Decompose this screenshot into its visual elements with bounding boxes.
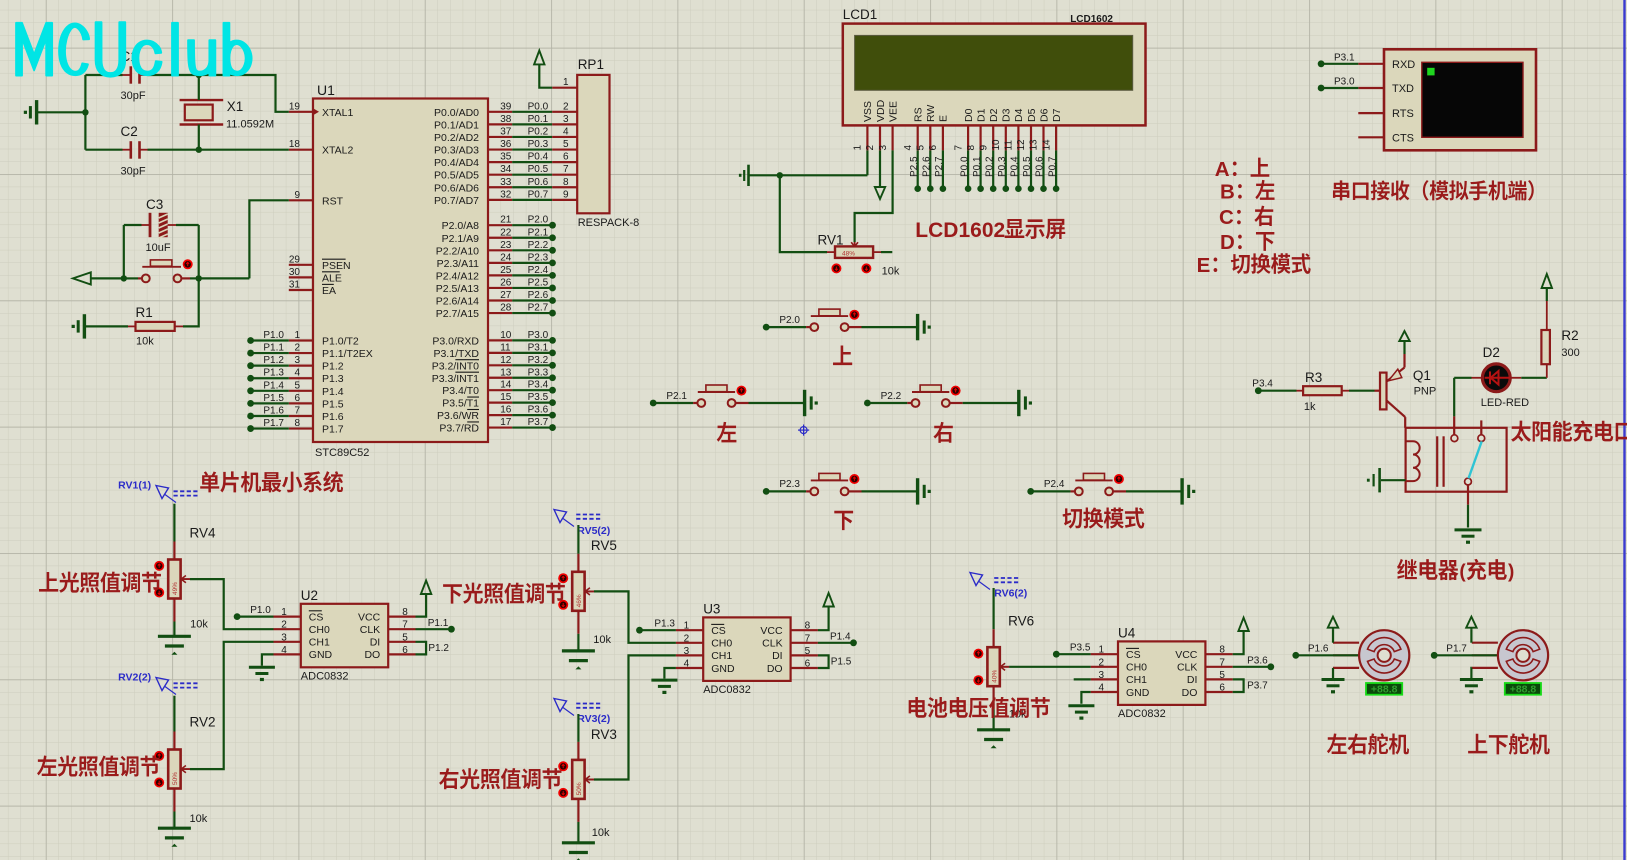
svg-text:8: 8 <box>294 418 300 429</box>
svg-text:P2.2: P2.2 <box>528 240 549 251</box>
svg-text:D7: D7 <box>1051 108 1063 122</box>
svg-text:30: 30 <box>289 267 301 278</box>
svg-text:9: 9 <box>294 190 300 201</box>
svg-text:P2.5/A13: P2.5/A13 <box>436 283 479 295</box>
svg-text:RV6(2): RV6(2) <box>994 587 1027 599</box>
svg-text:P3.4/T0: P3.4/T0 <box>442 385 479 397</box>
svg-text:12: 12 <box>1016 139 1027 151</box>
svg-text:48%: 48% <box>842 251 855 258</box>
svg-text:7: 7 <box>402 620 408 631</box>
svg-text:P3.7: P3.7 <box>1247 681 1268 692</box>
svg-text:11: 11 <box>500 342 511 353</box>
svg-text:P1.4: P1.4 <box>322 386 344 398</box>
svg-text:P3.3/INT1: P3.3/INT1 <box>432 373 479 385</box>
svg-text:LCD1602: LCD1602 <box>915 219 1005 242</box>
svg-text:(: ( <box>1459 561 1466 582</box>
svg-text:P0.2: P0.2 <box>984 156 995 177</box>
svg-text:P0.0: P0.0 <box>959 156 970 177</box>
svg-text:P3.7/RD: P3.7/RD <box>439 423 479 435</box>
svg-text:33: 33 <box>500 177 512 188</box>
svg-text:EA: EA <box>322 285 336 297</box>
svg-text:D6: D6 <box>1038 108 1050 122</box>
svg-text:P1.5: P1.5 <box>831 657 852 668</box>
svg-text:2: 2 <box>684 633 690 644</box>
svg-text:P3.6/WR: P3.6/WR <box>437 410 479 422</box>
svg-text:D: D <box>1220 231 1235 254</box>
svg-text:10: 10 <box>991 139 1002 151</box>
svg-text:8: 8 <box>1219 645 1225 656</box>
svg-text:P2.2/A10: P2.2/A10 <box>436 245 479 257</box>
svg-text:3: 3 <box>1098 670 1104 681</box>
svg-text:3: 3 <box>281 632 287 643</box>
svg-text:P2.3/A11: P2.3/A11 <box>437 258 480 270</box>
svg-text:26: 26 <box>500 277 512 288</box>
svg-text:VEE: VEE <box>887 101 899 122</box>
svg-text:R3: R3 <box>1305 370 1322 385</box>
svg-text:P1.4: P1.4 <box>830 632 851 643</box>
svg-text:CLK: CLK <box>1177 662 1197 674</box>
svg-text:XTAL2: XTAL2 <box>322 145 353 157</box>
svg-text:7: 7 <box>1219 657 1225 668</box>
svg-text:DO: DO <box>1182 687 1198 699</box>
svg-text:P0.6: P0.6 <box>528 177 549 188</box>
svg-text:P0.3/AD3: P0.3/AD3 <box>434 145 479 157</box>
svg-text:RV2: RV2 <box>190 715 216 730</box>
svg-text:P2.1: P2.1 <box>528 227 549 238</box>
svg-text:3: 3 <box>684 646 690 657</box>
svg-text:B: B <box>1220 181 1235 204</box>
svg-text:CLK: CLK <box>360 624 380 636</box>
svg-text:35: 35 <box>500 152 512 163</box>
svg-text:DI: DI <box>772 650 783 662</box>
svg-text:9: 9 <box>563 189 569 200</box>
svg-text:D1: D1 <box>975 108 987 122</box>
svg-text:P1.1/T2EX: P1.1/T2EX <box>322 348 373 360</box>
svg-text:P3.5/T1: P3.5/T1 <box>442 398 479 410</box>
svg-text:P0.1: P0.1 <box>972 156 983 177</box>
svg-text:CH1: CH1 <box>711 650 732 662</box>
svg-text:CH1: CH1 <box>1126 674 1147 686</box>
svg-text:46%: 46% <box>576 594 583 607</box>
svg-text:CH0: CH0 <box>309 624 330 636</box>
svg-text:P2.7: P2.7 <box>528 303 549 314</box>
svg-text:11.0592M: 11.0592M <box>226 118 274 130</box>
svg-text:1: 1 <box>684 621 690 632</box>
svg-text:P2.6/A14: P2.6/A14 <box>436 296 479 308</box>
svg-text:RV3(2): RV3(2) <box>577 713 610 725</box>
svg-text:A: A <box>1215 158 1230 181</box>
svg-text:P0.5: P0.5 <box>1022 156 1033 177</box>
svg-text:P2.0: P2.0 <box>528 215 549 226</box>
svg-text:29: 29 <box>289 254 301 265</box>
svg-text:10k: 10k <box>592 827 610 839</box>
svg-text:P2.5: P2.5 <box>528 277 549 288</box>
svg-text:32: 32 <box>500 189 512 200</box>
svg-text:D2: D2 <box>1483 345 1500 360</box>
svg-text:P1.7: P1.7 <box>322 424 344 436</box>
svg-text:D0: D0 <box>963 108 975 122</box>
svg-text:2: 2 <box>294 343 300 354</box>
svg-text:RV4: RV4 <box>190 526 217 541</box>
svg-text:P1.7: P1.7 <box>263 418 284 429</box>
svg-text:LED-RED: LED-RED <box>1481 397 1529 409</box>
svg-text:ADC0832: ADC0832 <box>1118 708 1166 720</box>
svg-text:GND: GND <box>1126 687 1150 699</box>
svg-text:P0.2/AD2: P0.2/AD2 <box>434 132 479 144</box>
svg-text:P1.0: P1.0 <box>263 330 284 341</box>
svg-text:P2.2: P2.2 <box>881 391 902 402</box>
svg-text:5: 5 <box>1219 670 1225 681</box>
svg-text:P1.3: P1.3 <box>654 619 675 630</box>
svg-text:DO: DO <box>364 649 380 661</box>
svg-text:D4: D4 <box>1013 108 1025 122</box>
svg-text:1: 1 <box>281 607 287 618</box>
svg-text:5: 5 <box>563 139 569 150</box>
svg-text:38: 38 <box>500 114 512 125</box>
svg-text:P1.6: P1.6 <box>1308 644 1329 655</box>
svg-text:D3: D3 <box>1001 108 1013 122</box>
svg-text:1: 1 <box>853 145 864 151</box>
svg-text:P3.1/TXD: P3.1/TXD <box>433 348 479 360</box>
svg-text:P3.0: P3.0 <box>1334 77 1355 88</box>
svg-text:P0.0: P0.0 <box>528 101 549 112</box>
svg-text:U2: U2 <box>301 588 318 603</box>
svg-text:4: 4 <box>563 126 569 137</box>
svg-text:P3.1: P3.1 <box>1334 52 1355 63</box>
svg-text:P0.1: P0.1 <box>528 114 549 125</box>
svg-text:24: 24 <box>500 252 512 263</box>
svg-text:10k: 10k <box>136 336 154 348</box>
svg-text:8: 8 <box>805 621 811 632</box>
svg-text:1k: 1k <box>1304 401 1316 413</box>
svg-text:RTS: RTS <box>1392 108 1414 120</box>
svg-text:40%: 40% <box>991 669 998 682</box>
svg-text:P1.2: P1.2 <box>322 361 344 373</box>
svg-text:14: 14 <box>1041 139 1052 151</box>
svg-text:P0.0/AD0: P0.0/AD0 <box>434 107 479 119</box>
svg-text:5: 5 <box>402 632 408 643</box>
svg-text:300: 300 <box>1561 347 1579 359</box>
svg-text:10k: 10k <box>190 813 208 825</box>
svg-text:P0.6/AD6: P0.6/AD6 <box>434 182 479 194</box>
svg-text:5: 5 <box>294 380 300 391</box>
svg-text:P1.6: P1.6 <box>322 411 344 423</box>
svg-text:P0.7: P0.7 <box>1047 156 1058 177</box>
svg-text:DI: DI <box>1187 674 1198 686</box>
svg-text:10: 10 <box>500 330 512 341</box>
svg-text:C2: C2 <box>121 124 138 139</box>
svg-text:1: 1 <box>294 330 300 341</box>
svg-text:PNP: PNP <box>1414 386 1437 398</box>
svg-text:VCC: VCC <box>1175 649 1198 661</box>
svg-text:GND: GND <box>309 649 333 661</box>
svg-text:STC89C52: STC89C52 <box>315 447 369 459</box>
svg-text:P3.1: P3.1 <box>528 342 549 353</box>
svg-text:2: 2 <box>281 620 287 631</box>
svg-text:P3.2: P3.2 <box>528 355 549 366</box>
svg-text:P2.4: P2.4 <box>1044 479 1065 490</box>
svg-text:RV1(1): RV1(1) <box>118 479 151 491</box>
svg-text:P2.3: P2.3 <box>528 252 549 263</box>
svg-text:Q1: Q1 <box>1413 368 1431 383</box>
svg-text:28: 28 <box>500 303 512 314</box>
svg-text:6: 6 <box>928 145 939 151</box>
svg-text:P1.1: P1.1 <box>428 618 449 629</box>
svg-text:10k: 10k <box>190 619 208 631</box>
svg-text:R1: R1 <box>136 305 153 320</box>
svg-text:13: 13 <box>1029 139 1040 151</box>
svg-text:39: 39 <box>500 101 512 112</box>
svg-text:P1.5: P1.5 <box>263 393 284 404</box>
svg-text:34: 34 <box>500 164 512 175</box>
svg-text:49%: 49% <box>172 582 179 595</box>
svg-text:ADC0832: ADC0832 <box>703 684 751 696</box>
svg-text:R2: R2 <box>1561 328 1578 343</box>
svg-text:P1.3: P1.3 <box>322 373 344 385</box>
svg-text:+88.8: +88.8 <box>1510 684 1537 696</box>
svg-text:P1.0/T2: P1.0/T2 <box>322 336 359 348</box>
svg-text:P1.5: P1.5 <box>322 398 344 410</box>
svg-text:): ) <box>1508 561 1514 582</box>
svg-text:CS: CS <box>309 611 324 623</box>
svg-text:P2.6: P2.6 <box>528 290 549 301</box>
svg-text:2: 2 <box>563 101 569 112</box>
svg-text:2: 2 <box>1098 657 1104 668</box>
svg-text:P3.4: P3.4 <box>528 380 549 391</box>
svg-text:50%: 50% <box>172 772 179 785</box>
svg-text:3: 3 <box>563 114 569 125</box>
svg-text:6: 6 <box>294 393 300 404</box>
svg-text:37: 37 <box>500 126 512 137</box>
svg-text:7: 7 <box>563 164 569 175</box>
svg-text:CLK: CLK <box>762 638 782 650</box>
svg-text:31: 31 <box>289 280 301 291</box>
svg-text:PSEN: PSEN <box>322 260 351 272</box>
svg-text:P2.5: P2.5 <box>909 156 920 177</box>
svg-text:CH0: CH0 <box>711 638 732 650</box>
svg-text:RST: RST <box>322 195 344 207</box>
svg-text:P0.7: P0.7 <box>528 189 549 200</box>
svg-text:GND: GND <box>711 663 735 675</box>
svg-text:P0.4: P0.4 <box>1010 156 1021 177</box>
svg-text:50%: 50% <box>576 782 583 795</box>
svg-text:10uF: 10uF <box>146 242 171 254</box>
svg-text:P3.3: P3.3 <box>528 367 549 378</box>
svg-text:P2.7/A15: P2.7/A15 <box>436 308 479 320</box>
svg-text:P2.3: P2.3 <box>779 479 800 490</box>
svg-text:LCD1602: LCD1602 <box>1070 14 1113 25</box>
svg-text:P1.7: P1.7 <box>1446 644 1467 655</box>
svg-text:RV5(2): RV5(2) <box>577 525 610 537</box>
svg-text:XTAL1: XTAL1 <box>322 107 353 119</box>
svg-text:14: 14 <box>500 380 512 391</box>
svg-text:C3: C3 <box>146 197 163 212</box>
svg-text:10k: 10k <box>882 266 900 278</box>
svg-text:P1.2: P1.2 <box>428 643 449 654</box>
svg-text:5: 5 <box>916 145 927 151</box>
svg-text:P0.3: P0.3 <box>528 139 549 150</box>
svg-text:5: 5 <box>805 646 811 657</box>
svg-text:8: 8 <box>402 607 408 618</box>
svg-text:P0.5/AD5: P0.5/AD5 <box>434 170 479 182</box>
svg-text:3: 3 <box>878 145 889 151</box>
svg-text:RS: RS <box>913 107 925 122</box>
svg-text:P0.6: P0.6 <box>1035 156 1046 177</box>
svg-text:P3.0: P3.0 <box>528 330 549 341</box>
svg-text:P2.4: P2.4 <box>528 265 549 276</box>
svg-text:P3.2/INT0: P3.2/INT0 <box>432 360 479 372</box>
svg-text:RV6: RV6 <box>1008 614 1034 629</box>
svg-text:22: 22 <box>500 227 512 238</box>
svg-text:36: 36 <box>500 139 512 150</box>
svg-text:12: 12 <box>500 355 512 366</box>
svg-text:P2.6: P2.6 <box>922 156 933 177</box>
svg-text:1: 1 <box>1098 645 1104 656</box>
svg-text:P0.7/AD7: P0.7/AD7 <box>434 195 479 207</box>
svg-text:RV1: RV1 <box>818 232 844 247</box>
svg-text:RV3: RV3 <box>591 727 617 742</box>
svg-text:P0.3: P0.3 <box>997 156 1008 177</box>
svg-text:7: 7 <box>953 145 964 151</box>
svg-text:4: 4 <box>294 368 300 379</box>
svg-text:RV2(2): RV2(2) <box>118 672 151 684</box>
svg-text:P1.1: P1.1 <box>263 343 284 354</box>
svg-text:P2.1/A9: P2.1/A9 <box>442 233 480 245</box>
svg-text:ADC0832: ADC0832 <box>301 670 349 682</box>
svg-text:ALE: ALE <box>322 272 342 284</box>
svg-text:DI: DI <box>370 637 381 649</box>
svg-text:P0.4/AD4: P0.4/AD4 <box>434 157 479 169</box>
svg-text:P1.2: P1.2 <box>263 355 284 366</box>
svg-text:13: 13 <box>500 367 512 378</box>
svg-text:P3.4: P3.4 <box>1252 379 1273 390</box>
svg-text:23: 23 <box>500 240 512 251</box>
svg-text:RV5: RV5 <box>591 538 617 553</box>
svg-text:VCC: VCC <box>760 625 783 637</box>
svg-text:6: 6 <box>563 152 569 163</box>
svg-text:P3.0/RXD: P3.0/RXD <box>432 335 479 347</box>
svg-text:+88.8: +88.8 <box>1371 684 1398 696</box>
svg-text:30pF: 30pF <box>121 90 146 102</box>
svg-text:P0.2: P0.2 <box>528 126 549 137</box>
svg-text:P3.7: P3.7 <box>528 417 549 428</box>
svg-text:P3.5: P3.5 <box>528 392 549 403</box>
svg-text:U4: U4 <box>1118 625 1136 640</box>
svg-text:C: C <box>1219 206 1234 229</box>
svg-text:E: E <box>1197 254 1211 277</box>
svg-text:P2.1: P2.1 <box>666 391 687 402</box>
svg-text:P2.0/A8: P2.0/A8 <box>442 220 480 232</box>
svg-text:P1.0: P1.0 <box>250 605 271 616</box>
svg-text:RXD: RXD <box>1392 59 1415 71</box>
svg-text:P1.3: P1.3 <box>263 368 284 379</box>
svg-text:19: 19 <box>289 101 301 112</box>
svg-text:RW: RW <box>925 105 937 122</box>
svg-text:P2.0: P2.0 <box>779 315 800 326</box>
svg-text:CTS: CTS <box>1392 132 1414 144</box>
svg-text:CH0: CH0 <box>1126 662 1147 674</box>
svg-text:U1: U1 <box>317 82 335 98</box>
svg-text:P0.1/AD1: P0.1/AD1 <box>434 119 479 131</box>
svg-text:6: 6 <box>1219 683 1225 694</box>
svg-text:P1.6: P1.6 <box>263 405 284 416</box>
svg-text:8: 8 <box>966 145 977 151</box>
svg-text:7: 7 <box>805 633 811 644</box>
svg-text:16: 16 <box>500 405 512 416</box>
svg-text:P2.4/A12: P2.4/A12 <box>436 270 479 282</box>
svg-text:1: 1 <box>563 77 569 88</box>
svg-text:P0.4: P0.4 <box>528 152 549 163</box>
svg-text:11: 11 <box>1004 140 1015 151</box>
svg-text:17: 17 <box>500 417 512 428</box>
svg-text:TXD: TXD <box>1392 83 1414 95</box>
svg-text:LCD1: LCD1 <box>843 7 878 22</box>
svg-text:P1.4: P1.4 <box>263 380 284 391</box>
svg-text:21: 21 <box>500 215 512 226</box>
svg-text:25: 25 <box>500 265 512 276</box>
svg-text:U3: U3 <box>703 601 720 616</box>
svg-text:18: 18 <box>289 139 301 150</box>
svg-text:15: 15 <box>500 392 512 403</box>
svg-text:CS: CS <box>711 625 726 637</box>
svg-text:RP1: RP1 <box>578 57 604 72</box>
svg-text:9: 9 <box>978 145 989 151</box>
svg-text:7: 7 <box>294 405 300 416</box>
svg-text:4: 4 <box>1098 683 1104 694</box>
svg-text:CS: CS <box>1126 649 1141 661</box>
svg-text:VSS: VSS <box>862 101 874 122</box>
svg-text:6: 6 <box>805 659 811 670</box>
svg-text:2: 2 <box>865 145 876 151</box>
svg-text:CH1: CH1 <box>309 637 330 649</box>
svg-text:6: 6 <box>402 645 408 656</box>
svg-text:D2: D2 <box>988 108 1000 122</box>
svg-text:10k: 10k <box>593 634 611 646</box>
svg-text:P3.6: P3.6 <box>1247 656 1268 667</box>
svg-text:VCC: VCC <box>358 611 381 623</box>
svg-text:P2.7: P2.7 <box>934 156 945 177</box>
svg-text:E: E <box>938 115 950 122</box>
svg-text:DO: DO <box>767 663 783 675</box>
svg-text:4: 4 <box>281 645 287 656</box>
svg-text:P3.6: P3.6 <box>528 405 549 416</box>
svg-text:8: 8 <box>563 177 569 188</box>
svg-text:P0.5: P0.5 <box>528 164 549 175</box>
svg-text:P3.5: P3.5 <box>1070 643 1091 654</box>
svg-text:3: 3 <box>294 355 300 366</box>
svg-text:30pF: 30pF <box>121 165 146 177</box>
svg-text:RESPACK-8: RESPACK-8 <box>578 217 640 229</box>
svg-text:VDD: VDD <box>875 99 887 122</box>
svg-text:D5: D5 <box>1026 108 1038 122</box>
svg-text:4: 4 <box>684 659 690 670</box>
svg-text:4: 4 <box>903 145 914 151</box>
svg-text:27: 27 <box>500 290 512 301</box>
svg-text:X1: X1 <box>227 99 244 114</box>
